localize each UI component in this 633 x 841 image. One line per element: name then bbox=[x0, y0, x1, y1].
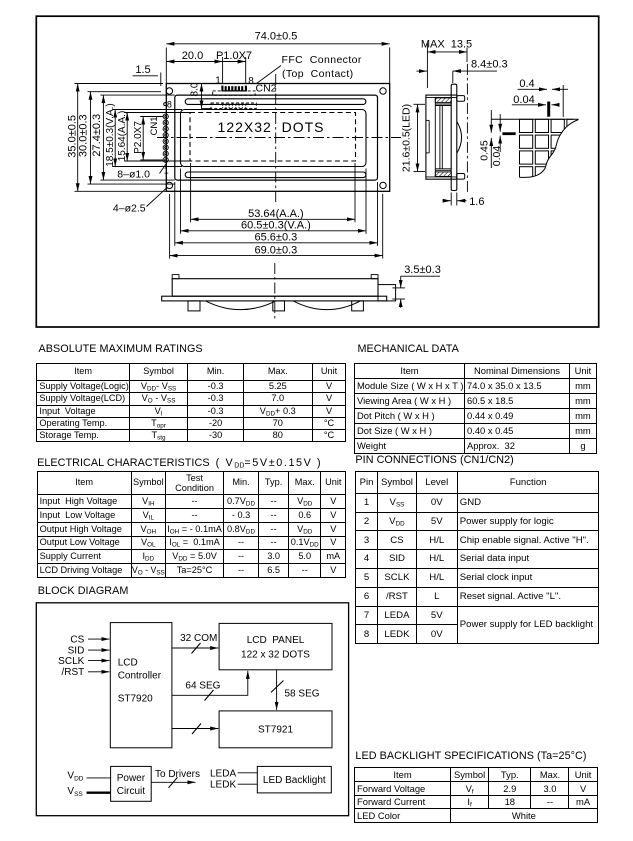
svg-text:MAX 13.5: MAX 13.5 bbox=[421, 38, 472, 50]
table mechanical data bbox=[354, 363, 597, 453]
svg-text:1.5: 1.5 bbox=[135, 64, 150, 76]
wire LEDK bbox=[238, 783, 258, 785]
bezel bottom slot bbox=[185, 172, 366, 178]
drawing sheet frame bbox=[36, 16, 598, 327]
svg-text:8: 8 bbox=[248, 76, 254, 87]
table led backlight specifications bbox=[354, 767, 598, 823]
wire 58 SEG bbox=[276, 670, 278, 710]
bottom view backlight tab bbox=[378, 285, 396, 301]
svg-text:27.4±0.3: 27.4±0.3 bbox=[91, 114, 103, 157]
wire 32 COM bbox=[172, 647, 218, 649]
svg-text:VDD: VDD bbox=[67, 770, 83, 782]
CN2 hidden outline upper bbox=[213, 91, 256, 95]
bus slash 32 COM bbox=[192, 643, 201, 654]
CN1 pin-8 marker circle bbox=[164, 103, 167, 106]
bottom view left tab bbox=[172, 275, 179, 279]
power circuit box bbox=[111, 766, 152, 801]
wire VDD bbox=[87, 777, 111, 779]
svg-text:60.5±0.3(V.A.): 60.5±0.3(V.A.) bbox=[241, 220, 311, 232]
dot gap marker horizontal bbox=[502, 132, 515, 135]
left dimension P2.0X7 bbox=[140, 117, 163, 160]
svg-text:21.6±0.5(LED): 21.6±0.5(LED) bbox=[401, 104, 413, 172]
bottom view right arc bbox=[293, 301, 360, 310]
dimension 0.04 (horizontal) bbox=[512, 104, 558, 106]
bottom view body bbox=[172, 279, 378, 297]
dimension 74.0±0.5 bbox=[166, 44, 389, 83]
side view bezel profile bbox=[426, 95, 457, 179]
section title bbox=[355, 454, 513, 466]
front view vertical centerline bbox=[275, 74, 277, 203]
dimension MAX 13.5 bbox=[427, 43, 467, 88]
left dimension 30.0±0.3 bbox=[88, 92, 176, 184]
dimension 1.5 bbox=[133, 73, 161, 87]
bottom view PCB bar bbox=[162, 296, 387, 301]
svg-text:8–ø1.0: 8–ø1.0 bbox=[117, 168, 150, 180]
wire SCLK bbox=[88, 660, 110, 662]
svg-text:ST7920: ST7920 bbox=[118, 694, 153, 705]
svg-text:8: 8 bbox=[167, 99, 172, 109]
leader 8-ø1.0 bbox=[160, 164, 167, 174]
bottom dimension 53.64(A.A.) bbox=[191, 163, 355, 222]
side view mounting peg top bbox=[457, 96, 465, 102]
svg-text:32 COM: 32 COM bbox=[180, 633, 217, 644]
table electrical characteristics bbox=[37, 471, 347, 578]
side view backlight bulge bbox=[457, 122, 462, 154]
bottom view foot 1 bbox=[188, 301, 200, 311]
dimension 0.45 (vertical) bbox=[490, 110, 492, 168]
bezel outline bbox=[175, 95, 378, 180]
dimension 8.0 (CN2 depth) bbox=[202, 84, 213, 109]
wire LEDA bbox=[238, 772, 258, 774]
wire /RST bbox=[88, 671, 110, 673]
ST7921 box bbox=[219, 711, 332, 748]
wire CS bbox=[88, 638, 110, 640]
svg-text:CN1: CN1 bbox=[149, 116, 160, 135]
svg-text:20.0: 20.0 bbox=[182, 50, 203, 62]
block diagram frame bbox=[36, 603, 348, 816]
dot detail top edge extension bbox=[491, 118, 579, 120]
dimension 21.6±0.5(LED) bbox=[414, 104, 426, 171]
svg-text:LCD: LCD bbox=[118, 658, 138, 669]
bus slash 58 SEG bbox=[271, 681, 284, 693]
svg-text:0.45: 0.45 bbox=[479, 140, 491, 161]
bottom dimension 69.0±0.3 bbox=[170, 194, 383, 259]
left dimension 15.64 (A.A.) bbox=[124, 113, 191, 162]
svg-text:Controller: Controller bbox=[118, 671, 162, 682]
svg-text:CN2: CN2 bbox=[256, 83, 277, 95]
table absolute maximum ratings bbox=[36, 363, 346, 443]
svg-text:0.4: 0.4 bbox=[519, 78, 534, 90]
left dimension 35.0±0.5 bbox=[75, 84, 167, 192]
bottom view foot 3 bbox=[352, 301, 364, 311]
side view glass stack lines bbox=[435, 97, 451, 176]
dimension 0.04 (vertical) bbox=[499, 114, 501, 152]
svg-text:1: 1 bbox=[164, 166, 169, 176]
svg-text:65.6±0.3: 65.6±0.3 bbox=[255, 232, 298, 244]
svg-text:LEDA: LEDA bbox=[210, 768, 236, 779]
section title bbox=[355, 750, 586, 762]
dimension 8.4±0.3 bbox=[417, 71, 498, 83]
bottom dimension 60.5±0.3(V.A.) bbox=[181, 169, 367, 234]
side view hatched clip bottom bbox=[435, 172, 451, 177]
bezel top slot bbox=[185, 99, 366, 105]
side view mounting peg bottom bbox=[457, 174, 465, 180]
CN1 pad holes (8-ø1.0) bbox=[163, 114, 168, 163]
side view hatched clip top bbox=[435, 98, 451, 103]
dot detail break curve bbox=[520, 120, 579, 178]
left dimension 27.4±0.3 bbox=[100, 95, 174, 180]
CN2 hidden pin dashes bbox=[223, 104, 246, 109]
svg-text:P2.0X7: P2.0X7 bbox=[133, 121, 144, 154]
bottom dimension 65.6±0.3 bbox=[175, 182, 378, 246]
svg-text:69.0±0.3: 69.0±0.3 bbox=[255, 244, 298, 256]
svg-text:3.5±0.3: 3.5±0.3 bbox=[404, 264, 441, 276]
svg-text:18.5±0.3(V.A.): 18.5±0.3(V.A.) bbox=[105, 103, 116, 167]
svg-text:LED Backlight: LED Backlight bbox=[263, 775, 326, 786]
bus slash 64 SEG bbox=[205, 690, 214, 701]
front view PCB outline bbox=[166, 84, 389, 192]
svg-text:VSS: VSS bbox=[67, 786, 83, 798]
wire SID bbox=[88, 649, 110, 651]
wire 64 SEG bbox=[172, 671, 248, 696]
section title bbox=[37, 457, 322, 469]
display window (V.A.) bbox=[181, 110, 367, 167]
wire controller to ST7921 bbox=[172, 728, 218, 730]
wire To Drivers bbox=[151, 781, 195, 783]
CN2 pin comb bbox=[221, 86, 247, 91]
LED backlight box bbox=[257, 766, 331, 793]
svg-text:LEDK: LEDK bbox=[210, 780, 236, 791]
svg-text:To Drivers: To Drivers bbox=[155, 769, 200, 780]
mounting hole bottom-left bbox=[166, 182, 172, 188]
section title bbox=[39, 343, 203, 355]
section title bbox=[38, 585, 129, 597]
mounting hole bottom-right bbox=[380, 182, 386, 188]
mounting hole top-right bbox=[380, 88, 386, 94]
svg-text:8.0: 8.0 bbox=[189, 82, 200, 96]
svg-text:ST7921: ST7921 bbox=[258, 725, 293, 736]
svg-text:Circuit: Circuit bbox=[117, 786, 146, 797]
svg-text:15.64(A.A.): 15.64(A.A.) bbox=[117, 111, 128, 162]
FFC connector leader bbox=[257, 66, 282, 84]
dimension 0.4 bbox=[518, 85, 568, 117]
LCD controller box bbox=[110, 623, 172, 748]
svg-text:SID: SID bbox=[68, 645, 85, 656]
active area dashed rect bbox=[190, 113, 356, 162]
dot detail grid bbox=[520, 119, 581, 180]
dimension 1.6 (PCB thickness) bbox=[443, 193, 467, 206]
bottom view right tab bbox=[371, 275, 378, 279]
side view mounting plane centerline bbox=[466, 64, 468, 193]
CN2 hidden outline lower bbox=[211, 103, 256, 109]
bottom view foot 2 bbox=[273, 301, 285, 311]
svg-text:58 SEG: 58 SEG bbox=[285, 689, 320, 700]
svg-text:74.0±0.5: 74.0±0.5 bbox=[255, 30, 298, 42]
wire VSS (bold) bbox=[87, 792, 111, 794]
svg-text:/RST: /RST bbox=[62, 667, 85, 678]
bottom view left arc bbox=[206, 301, 276, 310]
svg-text:8.4±0.3: 8.4±0.3 bbox=[471, 58, 508, 70]
dot gap marker vertical bbox=[547, 102, 550, 117]
svg-text:LCD PANEL: LCD PANEL bbox=[247, 635, 305, 646]
svg-text:122 x 32 DOTS: 122 x 32 DOTS bbox=[241, 650, 310, 661]
svg-text:CS: CS bbox=[70, 634, 84, 645]
dimension 3.5±0.3 bbox=[392, 276, 440, 308]
svg-text:(Top Contact): (Top Contact) bbox=[282, 68, 354, 80]
svg-text:0.04: 0.04 bbox=[513, 94, 534, 106]
table pin connections bbox=[355, 471, 600, 644]
LCD panel box bbox=[219, 623, 332, 669]
svg-text:64 SEG: 64 SEG bbox=[185, 680, 220, 691]
svg-text:1: 1 bbox=[215, 76, 221, 87]
svg-text:122X32 DOTS: 122X32 DOTS bbox=[218, 119, 325, 135]
svg-text:FFC Connector: FFC Connector bbox=[282, 54, 362, 66]
bus slash To Drivers bbox=[169, 777, 178, 788]
bottom view centerline bbox=[274, 263, 276, 319]
left dimension 18.5±0.3 (V.A.) bbox=[112, 110, 182, 167]
svg-text:1.6: 1.6 bbox=[469, 196, 484, 208]
side view PCB plate bbox=[451, 84, 457, 190]
svg-text:4–ø2.5: 4–ø2.5 bbox=[113, 203, 146, 215]
svg-text:53.64(A.A.): 53.64(A.A.) bbox=[248, 208, 304, 220]
svg-text:Power: Power bbox=[117, 773, 146, 784]
front view horizontal centerline bbox=[157, 137, 401, 139]
svg-text:0.04: 0.04 bbox=[491, 146, 503, 167]
bus slash controller-ST7921 bbox=[192, 724, 201, 735]
svg-text:30.0±0.3: 30.0±0.3 bbox=[78, 114, 90, 157]
section title bbox=[358, 343, 459, 355]
svg-text:P1.0X7: P1.0X7 bbox=[216, 50, 252, 62]
dimension 20.0 bbox=[166, 57, 222, 84]
leader 4-ø2.5 bbox=[147, 188, 167, 207]
svg-text:SCLK: SCLK bbox=[58, 656, 84, 667]
dimension P1.0X7 bbox=[223, 57, 246, 84]
mounting hole top-left bbox=[166, 88, 172, 94]
